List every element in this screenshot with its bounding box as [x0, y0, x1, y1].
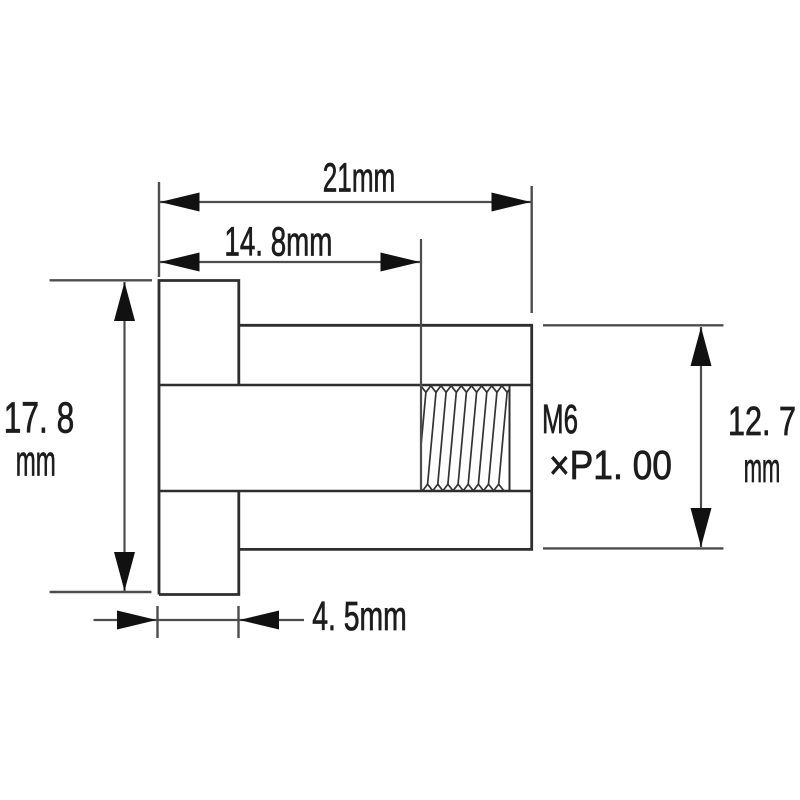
dim 17.8mm dimension line	[123, 282, 125, 591]
dim 17.8mm extension line top	[50, 279, 152, 281]
svg-text:M6: M6	[542, 396, 578, 442]
dim 12.7mm dimension line	[700, 327, 702, 547]
svg-text:21mm: 21mm	[323, 155, 396, 201]
dim 14.8mm arrow right	[381, 253, 421, 272]
bore top line	[159, 384, 532, 387]
svg-text:×P1. 00: ×P1. 00	[549, 442, 672, 488]
dim 4.5mm tick right	[237, 606, 239, 638]
svg-text:4. 5mm: 4. 5mm	[312, 593, 407, 639]
bore bottom line	[159, 490, 532, 493]
dim 14.8mm dimension line	[160, 261, 420, 263]
svg-text:14. 8mm: 14. 8mm	[224, 219, 332, 265]
dim 4.5mm dimension line	[94, 619, 305, 621]
dim 14.8mm arrow left	[160, 253, 200, 272]
svg-text:mm: mm	[744, 445, 781, 491]
dim 21mm extension line right	[531, 186, 533, 313]
dim 12.7mm arrow bottom	[691, 508, 712, 547]
svg-text:mm: mm	[16, 438, 56, 486]
dim 21mm arrow left	[160, 193, 200, 212]
dim 17.8mm extension line bottom	[50, 591, 152, 593]
dim 4.5mm arrow left	[117, 611, 157, 630]
body outline	[239, 325, 532, 549]
thread hatch M6	[413, 386, 513, 491]
dim 21mm dimension line	[160, 201, 531, 203]
dim 17.8mm arrow bottom	[114, 552, 135, 591]
svg-text:12. 7: 12. 7	[728, 398, 796, 444]
flange outline	[159, 281, 239, 595]
dim 14.8mm extension line	[420, 239, 422, 490]
dim 12.7mm arrow top	[691, 327, 712, 366]
thread end line	[509, 385, 511, 491]
dim 21mm extension line left	[158, 182, 160, 277]
dim 4.5mm tick left	[156, 606, 158, 638]
dim 21mm arrow right	[492, 193, 532, 212]
dim 12.7mm extension line top	[543, 324, 724, 326]
svg-text:17. 8: 17. 8	[4, 394, 75, 443]
dim 4.5mm arrow right	[240, 611, 280, 630]
dim 17.8mm arrow top	[114, 282, 135, 321]
dim 12.7mm extension line bottom	[543, 547, 724, 549]
